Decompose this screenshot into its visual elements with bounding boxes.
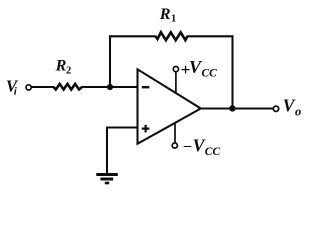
svg-text:2: 2 xyxy=(66,66,71,77)
node A junction dot xyxy=(107,84,113,90)
svg-text:V: V xyxy=(283,95,296,115)
wire feedback top left xyxy=(109,35,156,37)
op-amp minus input sign xyxy=(142,86,149,88)
svg-text:o: o xyxy=(295,105,301,119)
wire Vi to R2 xyxy=(32,86,55,88)
terminal Vo xyxy=(273,106,278,111)
wire feedback top right xyxy=(187,35,233,37)
svg-text:CC: CC xyxy=(202,68,218,80)
wire -Vcc stub xyxy=(174,123,176,143)
op-amp plus input sign xyxy=(142,128,150,130)
svg-text:CC: CC xyxy=(205,146,221,158)
terminal Vi xyxy=(26,85,31,90)
svg-text:1: 1 xyxy=(171,13,176,24)
ground xyxy=(96,173,118,176)
svg-text:R: R xyxy=(159,5,171,23)
op-amp U1 triangle xyxy=(138,69,201,144)
wire feedback right vertical xyxy=(231,35,233,108)
wire R2 to node A xyxy=(82,86,138,88)
terminal -Vcc xyxy=(172,143,177,148)
resistor R2 xyxy=(54,84,83,90)
wire output xyxy=(199,107,273,109)
node B junction dot xyxy=(229,105,235,111)
resistor R1 xyxy=(155,32,187,40)
svg-text:–: – xyxy=(183,138,192,154)
wire feedback left vertical xyxy=(109,36,111,87)
wire +Vcc stub xyxy=(175,72,177,94)
svg-text:R: R xyxy=(55,56,67,74)
terminal +Vcc xyxy=(173,67,178,72)
wire plus input xyxy=(107,128,138,174)
